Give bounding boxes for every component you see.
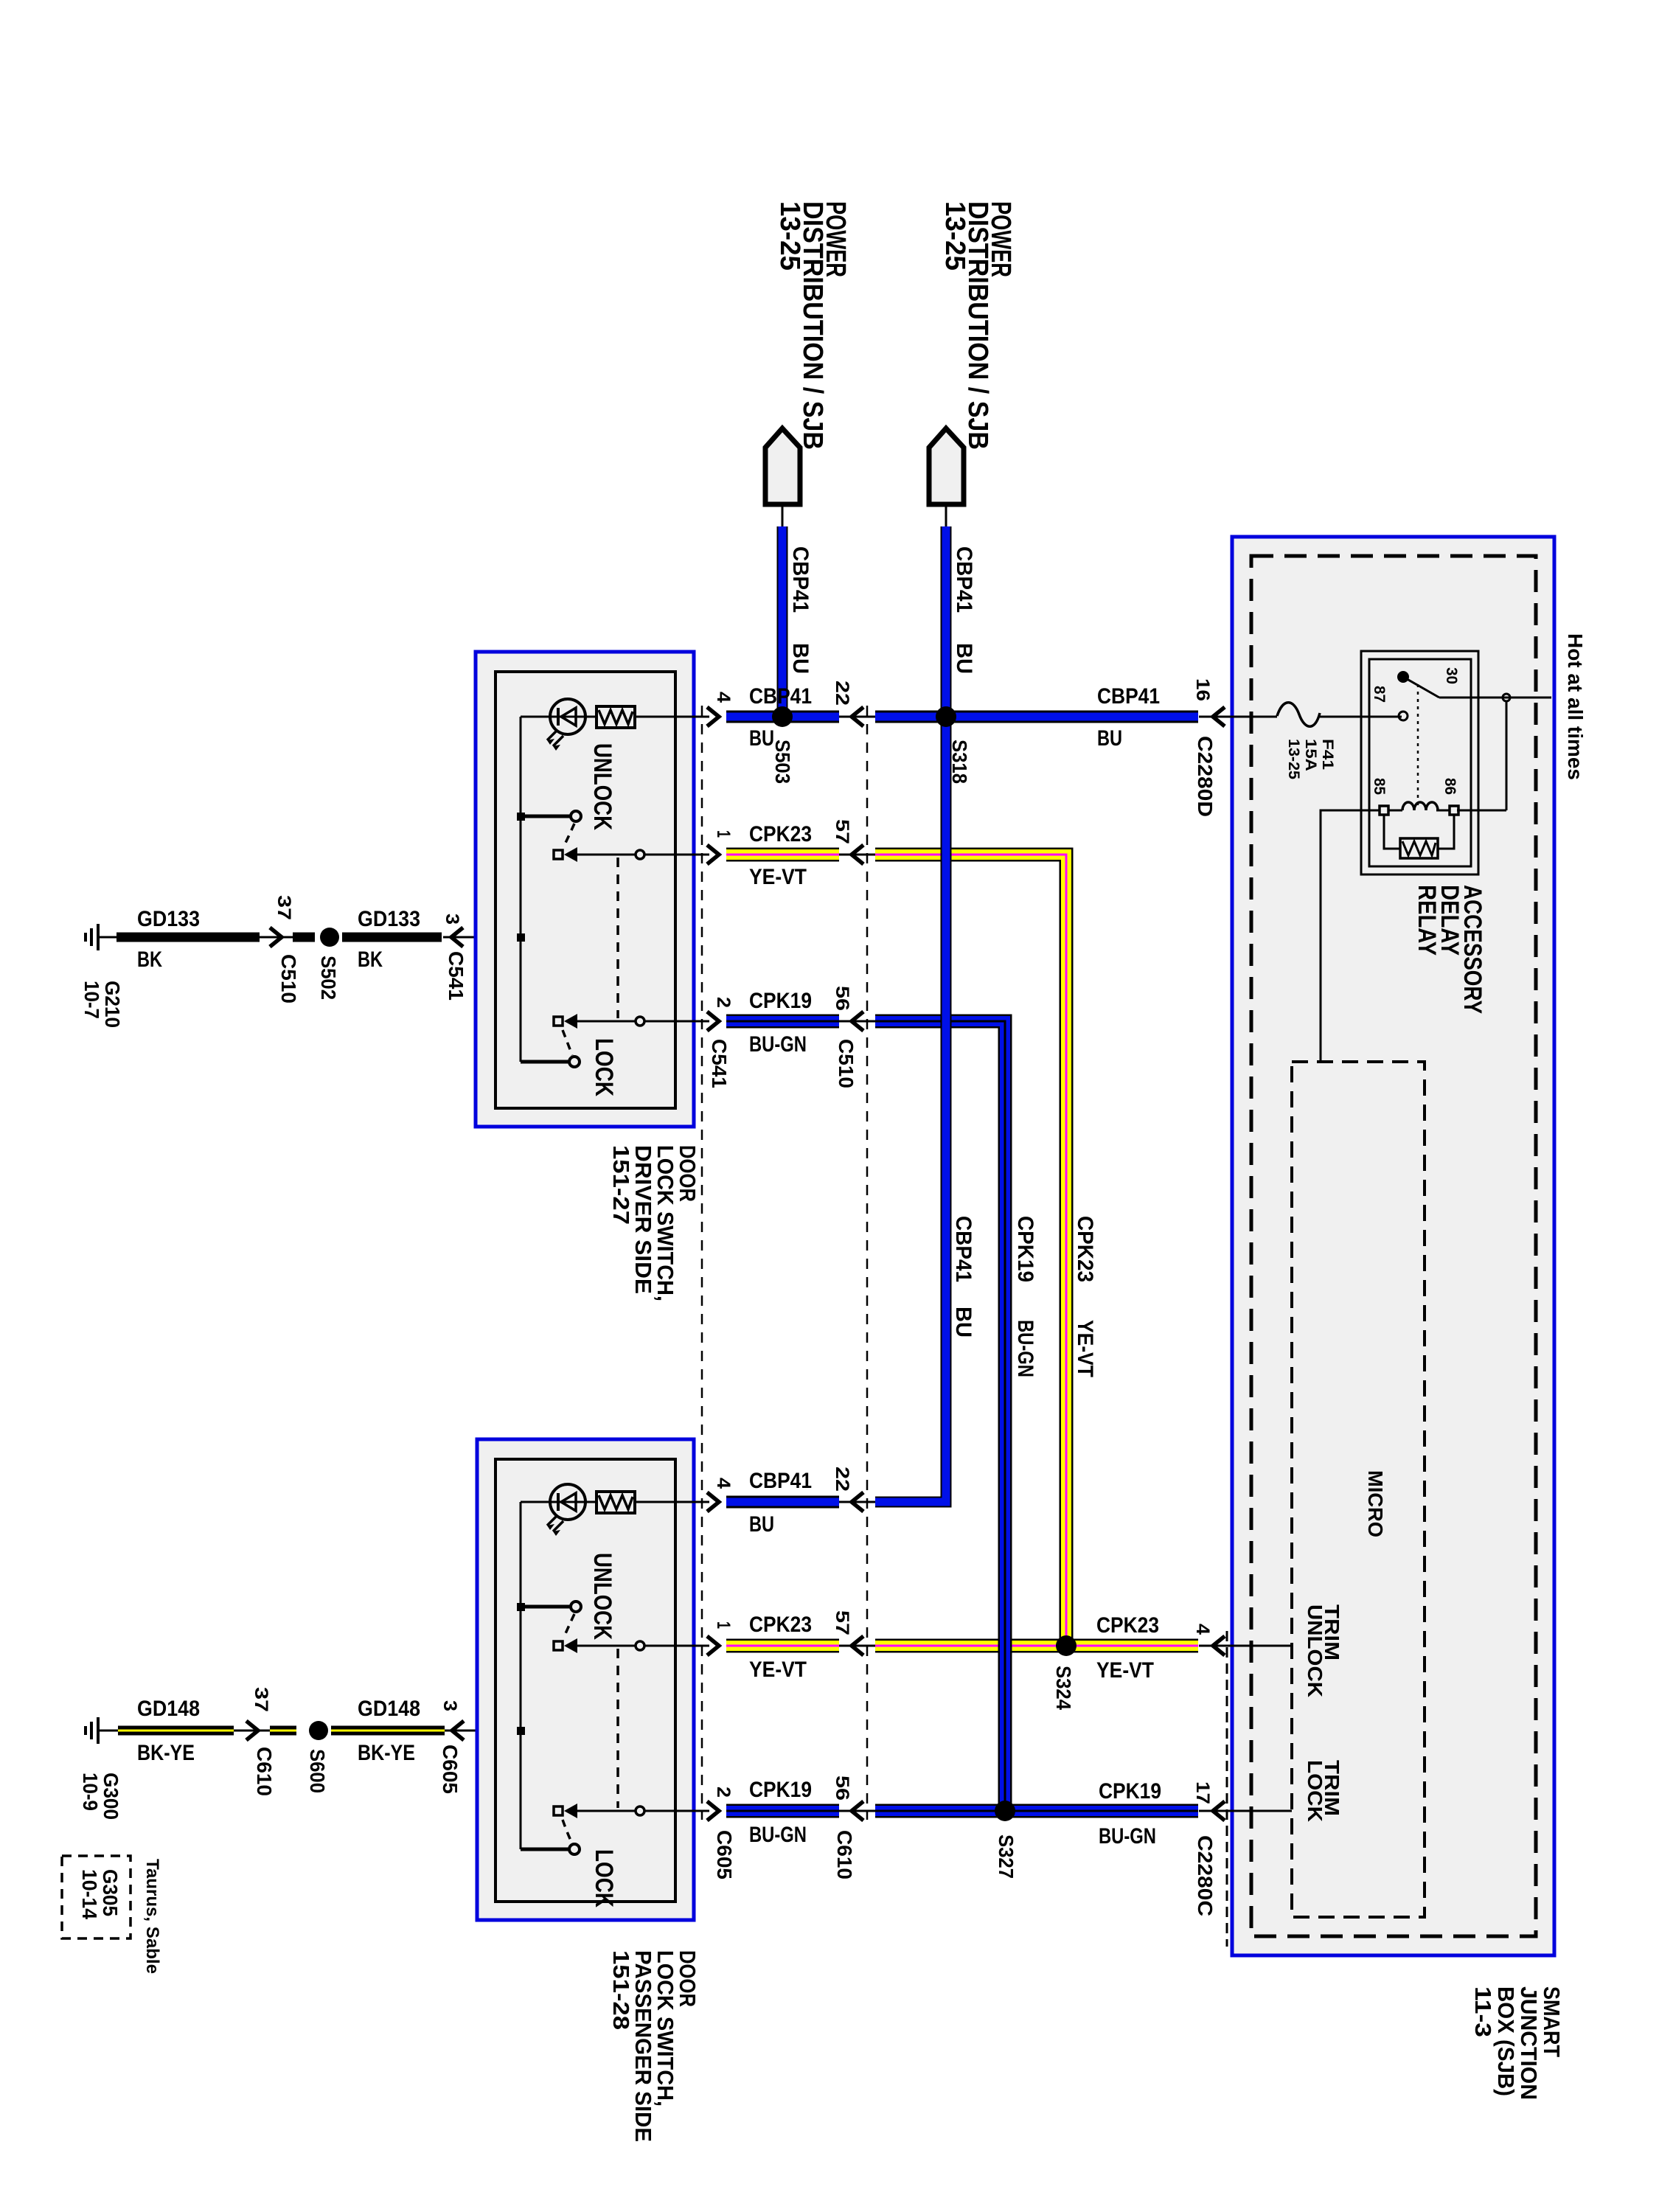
- svg-text:BK-YE: BK-YE: [137, 1741, 195, 1765]
- svg-text:57: 57: [832, 819, 852, 844]
- svg-text:151-27: 151-27: [608, 1145, 634, 1225]
- svg-text:CPK23: CPK23: [749, 822, 812, 846]
- svg-text:37: 37: [274, 895, 294, 920]
- svg-text:LOCK: LOCK: [590, 1038, 618, 1096]
- svg-text:BK: BK: [358, 947, 383, 972]
- svg-text:YE-VT: YE-VT: [1073, 1320, 1097, 1377]
- svg-text:2: 2: [713, 997, 734, 1008]
- svg-text:MICRO: MICRO: [1364, 1470, 1387, 1537]
- svg-text:CBP41: CBP41: [952, 546, 976, 613]
- svg-text:CPK19: CPK19: [1099, 1779, 1161, 1804]
- svg-text:22: 22: [832, 1467, 852, 1492]
- svg-text:YE-VT: YE-VT: [749, 1658, 807, 1682]
- svg-text:G305: G305: [99, 1869, 122, 1916]
- svg-text:22: 22: [832, 681, 852, 706]
- svg-text:UNLOCK: UNLOCK: [588, 1553, 616, 1640]
- svg-text:CBP41: CBP41: [749, 684, 812, 709]
- svg-text:G210: G210: [101, 981, 124, 1028]
- svg-text:Hot at all times: Hot at all times: [1564, 633, 1587, 780]
- svg-text:C610: C610: [253, 1747, 276, 1796]
- svg-text:17: 17: [1192, 1781, 1213, 1804]
- svg-text:UNLOCK: UNLOCK: [1304, 1604, 1326, 1697]
- svg-text:C605: C605: [713, 1830, 736, 1879]
- svg-text:10-7: 10-7: [80, 981, 103, 1019]
- svg-text:BU-GN: BU-GN: [749, 1032, 807, 1057]
- svg-text:3: 3: [439, 1700, 460, 1711]
- svg-text:BU: BU: [749, 726, 774, 751]
- svg-text:BU: BU: [788, 643, 813, 674]
- svg-text:LOCK: LOCK: [590, 1849, 618, 1907]
- svg-text:CBP41: CBP41: [788, 546, 813, 613]
- svg-text:57: 57: [832, 1610, 852, 1635]
- svg-text:CPK23: CPK23: [1096, 1613, 1159, 1638]
- svg-text:11-3: 11-3: [1470, 1986, 1496, 2037]
- svg-text:85: 85: [1371, 778, 1388, 795]
- svg-text:GD133: GD133: [137, 907, 200, 931]
- svg-text:56: 56: [832, 986, 852, 1011]
- svg-text:C510: C510: [835, 1039, 858, 1088]
- svg-text:C510: C510: [277, 954, 300, 1004]
- svg-text:S327: S327: [995, 1834, 1018, 1879]
- svg-text:CBP41: CBP41: [1097, 684, 1160, 709]
- svg-text:CBP41: CBP41: [951, 1216, 975, 1282]
- svg-text:BU: BU: [1097, 726, 1122, 751]
- svg-text:BU: BU: [951, 1307, 975, 1338]
- svg-text:CPK19: CPK19: [1013, 1216, 1037, 1282]
- svg-text:C541: C541: [445, 951, 467, 1001]
- svg-text:BK-YE: BK-YE: [358, 1741, 415, 1765]
- svg-text:Taurus, Sable: Taurus, Sable: [142, 1859, 162, 1974]
- svg-text:BU-GN: BU-GN: [1099, 1824, 1156, 1848]
- svg-text:BK: BK: [137, 947, 162, 972]
- svg-text:3: 3: [442, 914, 462, 925]
- svg-text:BU-GN: BU-GN: [1013, 1320, 1037, 1377]
- svg-text:151-28: 151-28: [608, 1950, 634, 2030]
- svg-text:86: 86: [1441, 778, 1458, 795]
- svg-text:1: 1: [713, 830, 734, 838]
- svg-text:C541: C541: [708, 1039, 731, 1088]
- svg-text:87: 87: [1371, 686, 1388, 703]
- svg-text:BU: BU: [952, 643, 976, 674]
- svg-text:C610: C610: [833, 1830, 856, 1879]
- svg-text:C2280C: C2280C: [1194, 1835, 1217, 1916]
- svg-text:4: 4: [713, 1478, 734, 1489]
- svg-text:13-25: 13-25: [939, 201, 970, 271]
- svg-text:G300: G300: [100, 1773, 122, 1820]
- svg-text:4: 4: [713, 692, 734, 703]
- svg-text:30: 30: [1443, 667, 1460, 684]
- svg-text:GD148: GD148: [137, 1697, 200, 1721]
- svg-text:RELAY: RELAY: [1413, 885, 1441, 956]
- svg-text:YE-VT: YE-VT: [1096, 1658, 1154, 1683]
- svg-text:C605: C605: [439, 1745, 462, 1794]
- svg-text:4: 4: [1192, 1624, 1213, 1635]
- svg-text:15A: 15A: [1302, 739, 1319, 771]
- svg-text:UNLOCK: UNLOCK: [588, 743, 616, 830]
- svg-text:S318: S318: [948, 740, 971, 784]
- svg-text:56: 56: [832, 1775, 852, 1801]
- svg-text:F41: F41: [1319, 739, 1336, 770]
- svg-text:SMART: SMART: [1539, 1986, 1565, 2057]
- svg-text:BOX (SJB): BOX (SJB): [1493, 1986, 1519, 2096]
- svg-text:CPK23: CPK23: [749, 1613, 812, 1637]
- svg-text:13-25: 13-25: [1285, 739, 1302, 779]
- svg-text:JUNCTION: JUNCTION: [1516, 1986, 1542, 2100]
- svg-text:16: 16: [1192, 678, 1213, 701]
- svg-text:YE-VT: YE-VT: [749, 865, 807, 889]
- svg-text:2: 2: [713, 1787, 734, 1798]
- svg-text:S600: S600: [306, 1749, 329, 1793]
- svg-text:37: 37: [251, 1687, 271, 1712]
- svg-text:CBP41: CBP41: [749, 1469, 812, 1493]
- svg-text:S503: S503: [771, 740, 794, 784]
- svg-text:BU: BU: [749, 1512, 774, 1537]
- svg-text:GD133: GD133: [358, 907, 420, 931]
- svg-text:GD148: GD148: [358, 1697, 420, 1721]
- svg-text:CPK23: CPK23: [1073, 1216, 1097, 1282]
- svg-text:LOCK: LOCK: [1304, 1760, 1326, 1822]
- svg-text:CPK19: CPK19: [749, 989, 812, 1013]
- svg-text:S502: S502: [317, 956, 340, 1000]
- svg-text:S324: S324: [1052, 1666, 1075, 1710]
- svg-text:1: 1: [713, 1621, 734, 1629]
- svg-text:10-9: 10-9: [79, 1773, 102, 1811]
- svg-text:BU-GN: BU-GN: [749, 1823, 807, 1847]
- svg-text:13-25: 13-25: [774, 201, 805, 271]
- svg-text:10-14: 10-14: [78, 1869, 101, 1919]
- svg-text:C2280D: C2280D: [1194, 736, 1217, 817]
- svg-text:CPK19: CPK19: [749, 1778, 812, 1802]
